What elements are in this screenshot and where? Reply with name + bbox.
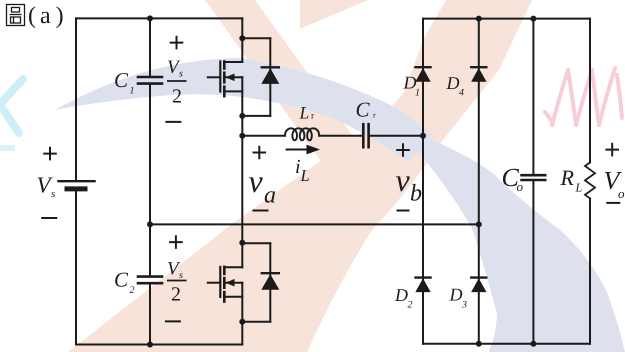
wire top rail left section (76, 17, 242, 19)
transistor Q2 arrowhead (226, 279, 235, 287)
wire Q1 source to node (241, 77, 243, 135)
svg-text:C: C (356, 98, 371, 122)
wire Q2 body diode bottom stub (242, 321, 270, 323)
node dot top rail Co (530, 16, 536, 22)
diode Q1 body diode cathode bar (262, 66, 279, 68)
wire left rail lower (battery to bottom rail) (75, 189, 77, 345)
transistor Q2 gate bar (219, 267, 221, 297)
svg-text:L: L (299, 103, 310, 123)
watermark cyan K letter left edge (1, 79, 23, 133)
battery Vs long plate (59, 180, 95, 182)
svg-text:v: v (249, 163, 264, 199)
wire C1 branch upper (149, 18, 151, 76)
resistor RL zigzag (585, 162, 595, 198)
svg-text:o: o (618, 186, 625, 201)
label va plus (253, 146, 267, 160)
svg-text:a: a (264, 183, 276, 209)
watermark pink top stub S3 (300, 0, 368, 29)
svg-text:r: r (373, 111, 376, 120)
capacitor C1 plates (138, 76, 162, 79)
svg-text:s: s (179, 270, 183, 281)
transistor Q1 channel segments (223, 62, 226, 69)
capacitor C2 plates (138, 275, 162, 278)
svg-text:L: L (300, 166, 310, 185)
watermark lavender crescent swoosh (55, 58, 432, 162)
wire Q1 body diode top stub (242, 37, 270, 39)
transistor Q2 gate lead (208, 282, 221, 284)
node dot Q1 drain (239, 35, 245, 41)
wire node A down to Q2 (241, 136, 243, 268)
node dot D4D3 junction (476, 221, 482, 227)
wire C1 to midpoint (149, 84, 151, 276)
transistor Q1 body arrow line (224, 76, 242, 78)
capacitor Cr plates (362, 124, 365, 147)
label Vs source plus (43, 147, 57, 161)
svg-text:C: C (114, 268, 129, 292)
svg-text:3: 3 (461, 300, 467, 311)
transistor Q1 gate bar (219, 62, 221, 92)
svg-text:C: C (114, 68, 129, 92)
label C2 minus (165, 320, 181, 322)
svg-text:2: 2 (408, 300, 413, 311)
svg-text:2: 2 (171, 283, 181, 305)
wire Q2 body diode top stub (242, 242, 270, 244)
wire node A to inductor (242, 135, 285, 137)
transistor Q2 channel segments (223, 267, 226, 274)
diode Q2 body diode cathode bar (262, 272, 279, 274)
diode Q1 body diode triangle (261, 68, 279, 84)
transistor Q1 drain stub (224, 61, 242, 63)
diode D2 cathode bar (416, 276, 431, 278)
wire D4-D3 branch (478, 19, 480, 344)
svg-text:R: R (560, 165, 575, 190)
diode D3 cathode bar (471, 276, 486, 278)
svg-text:2: 2 (172, 85, 182, 107)
node dot top rail C1 (147, 15, 153, 21)
svg-text:o: o (517, 179, 524, 194)
node dot Q2 drain (239, 240, 245, 246)
svg-text:D: D (449, 285, 463, 305)
svg-text:2: 2 (130, 285, 135, 296)
svg-text:D: D (394, 285, 408, 305)
wire Co branch lower (532, 180, 534, 344)
wire left rail upper (Vs+ to battery) (75, 18, 77, 181)
transistor Q1 gate lead (208, 76, 221, 78)
wire right top rail (423, 18, 590, 20)
wire Co branch upper (532, 19, 534, 175)
wire inductor to Cr (319, 135, 362, 137)
svg-text:1: 1 (415, 88, 420, 99)
svg-text:s: s (179, 69, 183, 80)
diode Q2 body diode triangle (261, 274, 279, 290)
diode D4 triangle (471, 68, 486, 82)
svg-text:v: v (396, 162, 411, 198)
svg-text:s: s (51, 188, 55, 200)
battery Vs short plate (67, 186, 85, 191)
svg-text:(a): (a) (28, 3, 64, 29)
wire RL branch upper (589, 19, 591, 163)
label Vs source minus (41, 217, 57, 219)
node dot vb node (420, 133, 426, 139)
wire Q1 drain from top rail (241, 18, 243, 62)
watermark pink script W letter top right (545, 68, 622, 125)
label vb plus (396, 143, 410, 157)
label C1 minus (165, 121, 181, 123)
svg-text:b: b (410, 181, 422, 207)
wire Cr to vb node (369, 135, 423, 137)
svg-text:4: 4 (459, 88, 464, 99)
node dot Q2 source (239, 319, 245, 325)
label Vo plus (605, 143, 619, 157)
transistor Q2 body arrow line (224, 282, 242, 284)
watermark pink big slash swoosh S2 (68, 0, 532, 352)
node dot bottom rail Co (530, 341, 536, 347)
wire return rail (va- to D3D4 junction) (150, 223, 479, 225)
diode D3 triangle (471, 278, 486, 292)
wire D1-D2 branch (422, 19, 424, 344)
node dot C1C2 midpoint (147, 221, 153, 227)
node dot top rail D4 (476, 16, 482, 22)
transistor Q2 drain stub (224, 266, 242, 268)
diode D2 triangle (415, 278, 430, 292)
arrow iL current arrow (287, 149, 310, 151)
diode D4 cathode bar (471, 66, 486, 68)
transistor Q2 source stub (224, 296, 242, 298)
diode D1 triangle (415, 68, 430, 82)
watermark lavender bottom-right region (390, 122, 625, 352)
wire C2 branch lower (149, 283, 151, 344)
wire right bottom rail (423, 343, 590, 345)
diode D1 cathode bar (416, 66, 431, 68)
label vb minus (397, 210, 410, 212)
transistor Q1 source stub (224, 90, 242, 92)
label Vo minus (606, 202, 620, 204)
node dot bottom rail C2 (147, 342, 153, 348)
label va minus (253, 210, 269, 212)
wire Q2 source to bottom rail (241, 283, 243, 345)
watermark cyan strip left edge (0, 145, 15, 151)
svg-text:1: 1 (130, 86, 135, 97)
node dot bottom rail D3 (476, 341, 482, 347)
wire bottom rail left section (76, 344, 242, 346)
svg-text:D: D (446, 73, 460, 93)
label C1 plus (170, 36, 184, 50)
capacitor Co plates (522, 174, 546, 177)
wire Q1 body diode bottom stub (242, 115, 270, 117)
transistor Q1 arrowhead (226, 74, 235, 82)
wire RL branch lower (589, 198, 591, 343)
node dot node A (239, 133, 245, 139)
watermark pink backslash band S1 (205, 0, 396, 231)
label C2 plus (169, 235, 183, 249)
diode Q1 body diode branch (269, 38, 271, 116)
svg-text:L: L (575, 181, 583, 195)
figure label 圖 glyph (7, 5, 25, 26)
node dot Q1 source (239, 113, 245, 119)
diode Q2 body diode branch (269, 243, 271, 321)
inductor Lr coil (285, 128, 319, 140)
